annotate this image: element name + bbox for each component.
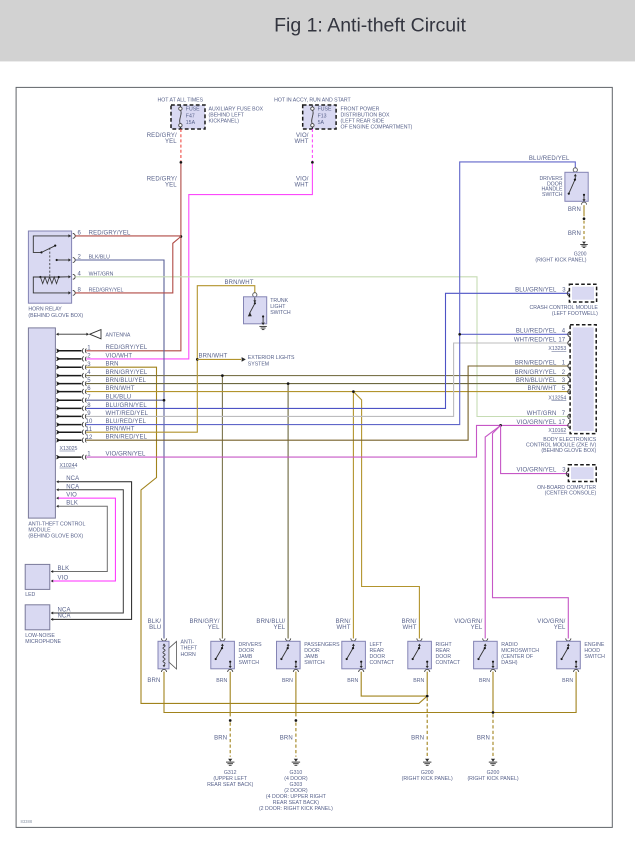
svg-text:EXTERIOR LIGHTS: EXTERIOR LIGHTS (248, 355, 295, 361)
wire BRN/WHT to exterior lights system arrow (197, 358, 241, 360)
svg-text:MICROSWITCH: MICROSWITCH (501, 648, 539, 654)
trunk light switch internals (254, 297, 256, 301)
svg-text:FUSE: FUSE (318, 107, 332, 113)
ground G200 radio (491, 759, 495, 762)
branch BRN/GRY/YEL to drivers door jamb switch (221, 376, 223, 639)
radio microswitch internals (484, 645, 486, 648)
horn relay coil to pin 8 (33, 277, 69, 293)
wire BRN/BLU/YEL pin 5 to body electronics pin 3 (86, 383, 569, 385)
svg-text:VIO/WHT: VIO/WHT (106, 353, 133, 359)
svg-text:BRN/BLU/: BRN/BLU/ (256, 619, 285, 625)
svg-text:BLU/RED/YEL: BLU/RED/YEL (516, 329, 557, 335)
anti-theft control module box (28, 328, 55, 518)
svg-text:BRN/RED/YEL: BRN/RED/YEL (515, 360, 557, 366)
body electronics module pin 3 BRN/BLU/YEL (568, 381, 571, 386)
svg-text:REAR SEAT BACK): REAR SEAT BACK) (207, 782, 253, 788)
svg-text:MODULE: MODULE (28, 528, 51, 534)
svg-text:VIO/GRN/YEL: VIO/GRN/YEL (517, 420, 558, 426)
svg-text:(BEHIND GLOVE BOX): (BEHIND GLOVE BOX) (541, 448, 596, 454)
crash control module box (569, 284, 596, 302)
svg-text:DASH): DASH) (501, 660, 517, 666)
svg-text:BRN: BRN (214, 736, 227, 742)
wire BRN pin 3 to bottom ground bus (86, 367, 427, 703)
svg-text:BLK: BLK (58, 566, 70, 572)
svg-text:BRN/BLU/YEL: BRN/BLU/YEL (516, 378, 557, 384)
svg-text:BRN/: BRN/ (402, 619, 417, 625)
ground G200 handle switch (582, 242, 586, 245)
svg-text:(RIGHT KICK PANEL): (RIGHT KICK PANEL) (467, 776, 518, 782)
branch VIO/GRN/YEL to on-board computer (501, 425, 569, 473)
svg-text:SWITCH: SWITCH (304, 660, 325, 666)
anti-theft module pin 1 stub (56, 349, 59, 353)
svg-text:2: 2 (87, 354, 91, 360)
ground G312 (228, 759, 232, 762)
svg-text:WHT: WHT (294, 139, 308, 145)
svg-text:VIO/: VIO/ (296, 176, 309, 182)
anti-theft module pin 3 stub (56, 365, 59, 369)
anti-theft module NCA pin 2 (51, 490, 123, 613)
svg-text:CONTACT: CONTACT (370, 660, 396, 666)
svg-text:CRASH CONTROL MODULE: CRASH CONTROL MODULE (529, 305, 598, 311)
splice dot on RED/GRY/YEL (180, 161, 183, 164)
svg-text:HOT AT ALL TIMES: HOT AT ALL TIMES (158, 98, 204, 104)
svg-text:3: 3 (562, 468, 566, 474)
wire WHT/GRN relay pin 4 to body electronics pin 7 (75, 277, 569, 417)
svg-text:F13: F13 (318, 113, 327, 119)
right rear door contact box (417, 638, 422, 641)
body electronics module pin 7 WHT/GRN (568, 414, 571, 419)
anti-theft module NCA pin 1 (51, 482, 132, 620)
svg-text:3: 3 (562, 287, 566, 293)
fuse F13 front power distribution box (303, 105, 336, 129)
svg-text:ANTENNA: ANTENNA (106, 332, 131, 338)
wire BLU/GRN/YEL pin 8 to crash control module (86, 293, 569, 408)
svg-text:MICROPHONE: MICROPHONE (25, 639, 61, 645)
horn relay box (28, 231, 71, 303)
body electronics control module box (570, 325, 596, 434)
svg-text:(RIGHT KICK PANEL): (RIGHT KICK PANEL) (535, 258, 586, 264)
svg-text:17: 17 (558, 420, 565, 426)
svg-text:SWITCH: SWITCH (239, 660, 260, 666)
wire BLK/BLU pin 7 (86, 399, 164, 401)
svg-text:HOOD: HOOD (584, 648, 600, 654)
trunk light switch ground (261, 323, 264, 326)
crash control module connector cup (567, 291, 570, 296)
anti-theft horn coil (163, 643, 166, 645)
svg-text:(LEFT REAR SIDE: (LEFT REAR SIDE (341, 119, 385, 125)
anti-theft horn box (161, 638, 166, 641)
svg-text:SYSTEM: SYSTEM (248, 361, 269, 367)
svg-text:KICKPANEL): KICKPANEL) (209, 119, 240, 125)
anti-theft module pin 9 stub (56, 415, 59, 419)
body electronics module pin 2 BRN/GRY/YEL (568, 373, 571, 378)
drivers door jamb switch internals (221, 645, 223, 648)
svg-text:SWITCH: SWITCH (584, 654, 605, 660)
radio microswitch box (483, 638, 488, 641)
body electronics module pin 17 WHT/RED/YEL (568, 340, 571, 345)
svg-text:WHT/RED/YEL: WHT/RED/YEL (514, 337, 557, 343)
svg-text:(LEFT FOOTWELL): (LEFT FOOTWELL) (552, 311, 598, 317)
svg-text:FRONT POWER: FRONT POWER (341, 106, 380, 112)
svg-text:BRN: BRN (280, 736, 293, 742)
horn relay connector cups (73, 234, 75, 239)
svg-text:HORN RELAY: HORN RELAY (28, 307, 62, 313)
svg-text:NCA: NCA (58, 614, 71, 620)
svg-text:(2 DOOR: RIGHT KICK PANEL): (2 DOOR: RIGHT KICK PANEL) (259, 806, 333, 812)
body electronics module pin 5 BRN/WHT (568, 389, 571, 394)
svg-text:DOOR: DOOR (370, 654, 386, 660)
svg-text:BRN: BRN (216, 678, 227, 684)
svg-text:NCA: NCA (58, 607, 71, 613)
branch BRN/WHT to left rear door contact (352, 392, 354, 639)
splice dot on VIO/WHT (311, 161, 314, 164)
svg-text:7: 7 (562, 411, 566, 417)
svg-text:BRN: BRN (413, 678, 424, 684)
wire RED/GRY/YEL solid to anti-theft module pin 1 (86, 164, 181, 351)
left rear door contact internals (352, 645, 354, 648)
junction dot RED/GRY/YEL with horn relay feeds (180, 235, 183, 238)
svg-text:VIO: VIO (58, 575, 69, 581)
svg-text:CONTACT: CONTACT (436, 660, 462, 666)
engine hood switch box (566, 638, 571, 641)
svg-text:BRN: BRN (347, 678, 358, 684)
wire BRN horn to ground bus (164, 672, 576, 713)
svg-text:BRN: BRN (568, 231, 581, 237)
ground G200 right rear (425, 759, 429, 762)
body electronics module pin 1 BRN/RED/YEL (568, 363, 571, 368)
svg-text:DISTRIBUTION BOX: DISTRIBUTION BOX (341, 113, 391, 119)
svg-text:BRN/WHT: BRN/WHT (225, 280, 254, 286)
body electronics module pin 4 BLU/RED/YEL (568, 332, 571, 337)
svg-text:SWITCH: SWITCH (542, 192, 563, 198)
trunk light switch box (244, 297, 267, 324)
svg-text:YEL: YEL (554, 625, 566, 631)
svg-text:BLU/RED/YEL: BLU/RED/YEL (529, 156, 570, 162)
svg-text:REAR: REAR (436, 648, 451, 654)
anti-theft module pin 12 stub (56, 438, 59, 442)
branch VIO/GRN/YEL to radio microswitch (485, 425, 500, 638)
LED box (25, 564, 50, 589)
svg-text:RED/GRY/: RED/GRY/ (147, 176, 177, 182)
svg-text:BRN: BRN (562, 678, 573, 684)
svg-text:BRN/: BRN/ (336, 619, 351, 625)
anti-theft module VIO pin to LED (51, 498, 115, 581)
svg-text:RIGHT: RIGHT (436, 642, 453, 648)
horn relay pin 2 contact (56, 259, 58, 261)
drivers door jamb switch box (220, 638, 225, 641)
svg-text:WHT/GRN: WHT/GRN (527, 411, 557, 417)
svg-text:FUSE: FUSE (186, 107, 200, 113)
svg-text:DOOR: DOOR (239, 648, 255, 654)
wire VIO/WHT solid to anti-theft module pin 2 (86, 164, 312, 359)
svg-text:YEL: YEL (274, 625, 286, 631)
horn relay actuator dashed link (49, 248, 51, 276)
ground G310 G303 (294, 759, 298, 762)
svg-text:BLU/GRN/YEL: BLU/GRN/YEL (515, 287, 557, 293)
svg-text:BLU: BLU (149, 625, 161, 631)
title banner (0, 0, 635, 61)
svg-text:(BEHIND GLOVE BOX): (BEHIND GLOVE BOX) (28, 313, 83, 319)
anti-theft module pin 11 stub (56, 430, 59, 434)
svg-text:DOOR: DOOR (304, 648, 320, 654)
engine hood switch internals (567, 645, 569, 648)
svg-text:BRN: BRN (568, 207, 581, 213)
on-board computer box (568, 465, 596, 482)
svg-text:BRN: BRN (479, 678, 490, 684)
svg-text:LED: LED (25, 592, 35, 598)
passengers door jamb switch internals (287, 645, 289, 648)
svg-text:BRN: BRN (282, 678, 293, 684)
passengers door jamb switch box (286, 638, 291, 641)
svg-text:15A: 15A (186, 120, 196, 126)
wire BRN drivers jamb to ground G312 (229, 672, 231, 717)
wire BRN below handle switch (583, 205, 585, 216)
anti-theft module BLK pin to LED (51, 506, 107, 571)
svg-text:NCA: NCA (66, 476, 79, 482)
wire BRN/WHT pin 11 to trunk light switch (86, 286, 255, 433)
right rear door contact internals (418, 645, 420, 648)
svg-text:VIO: VIO (66, 493, 77, 499)
antenna (58, 333, 88, 335)
svg-text:BRN/GRY/: BRN/GRY/ (189, 619, 219, 625)
wire RED/GRY/YEL dashed from fuse F47 (180, 129, 182, 161)
wire BLU/RED/YEL pin 10 to drivers door handle switch (86, 162, 575, 425)
svg-text:(RIGHT KICK PANEL): (RIGHT KICK PANEL) (402, 776, 453, 782)
svg-text:DRIVERS: DRIVERS (239, 642, 263, 648)
wire BLK/BLU relay pin 2 to anti-theft horn (75, 260, 164, 639)
svg-text:(BEHIND GLOVE BOX): (BEHIND GLOVE BOX) (28, 534, 83, 540)
svg-text:17: 17 (558, 337, 565, 343)
svg-text:1: 1 (87, 345, 91, 351)
svg-text:THEFT: THEFT (181, 646, 199, 652)
anti-theft module pin 7 stub (56, 398, 59, 402)
svg-text:YEL: YEL (165, 139, 177, 145)
svg-text:REAR: REAR (370, 648, 385, 654)
svg-text:OF ENGINE COMPARTMENT): OF ENGINE COMPARTMENT) (341, 125, 413, 131)
anti-theft module pin 5 stub (56, 382, 59, 386)
wire BRN radio microswitch to ground G200 (492, 672, 494, 713)
svg-text:BLK/: BLK/ (148, 619, 162, 625)
svg-text:1: 1 (562, 360, 566, 366)
fuse F13 element (311, 106, 313, 107)
svg-text:VIO/GRN/YEL: VIO/GRN/YEL (517, 468, 558, 474)
svg-text:SWITCH: SWITCH (270, 310, 291, 316)
svg-text:(BEHIND LEFT: (BEHIND LEFT (209, 113, 245, 119)
branch BRN/BLU/YEL to passengers door jamb switch (287, 384, 289, 639)
svg-text:BRN: BRN (147, 678, 160, 684)
horn relay internal switch (33, 236, 71, 253)
on-board computer connector cup (566, 471, 569, 476)
wire BRN right rear door contact to ground G200 (426, 672, 428, 695)
wire BRN/GRY/YEL pin 4 to body electronics pin 2 (86, 375, 569, 377)
svg-text:VIO/: VIO/ (296, 133, 309, 139)
svg-text:5: 5 (562, 386, 566, 392)
svg-text:BRN: BRN (411, 736, 424, 742)
anti-theft module pin 10 stub (56, 423, 59, 427)
wire WHT/RED/YEL pin 9 to body electronics pin 17 (86, 343, 569, 416)
svg-text:ANTI-: ANTI- (181, 640, 195, 646)
anti-theft module pin 6 stub (56, 390, 59, 394)
svg-text:VIO/GRN/: VIO/GRN/ (537, 619, 565, 625)
left rear door contact box (351, 638, 356, 641)
svg-text:WHT: WHT (294, 183, 308, 189)
branch VIO/GRN/YEL to engine hood switch (493, 425, 569, 638)
svg-text:WHT: WHT (402, 625, 416, 631)
svg-text:VIO/GRN/: VIO/GRN/ (454, 619, 482, 625)
svg-text:NCA: NCA (66, 484, 79, 490)
svg-text:(CENTER OF: (CENTER OF (501, 654, 533, 660)
wire BRN/WHT pin 6 to body electronics pin 5 (86, 391, 569, 393)
drivers door handle switch box (565, 172, 588, 201)
svg-text:LEFT: LEFT (370, 642, 384, 648)
svg-text:DOOR: DOOR (436, 654, 452, 660)
svg-text:4: 4 (562, 329, 566, 335)
svg-text:F47: F47 (186, 113, 195, 119)
svg-text:YEL: YEL (208, 625, 220, 631)
svg-text:83388: 83388 (21, 819, 33, 824)
svg-text:LOW-NOISE: LOW-NOISE (25, 633, 55, 639)
anti-theft module pin 8 stub (56, 407, 59, 411)
low-noise microphone box (25, 605, 50, 630)
svg-text:BRN/GRY/YEL: BRN/GRY/YEL (515, 370, 557, 376)
svg-text:BLK: BLK (66, 501, 78, 507)
branch BLU/RED/YEL to body electronics pin 4 (460, 333, 569, 335)
anti-theft module pin 2 stub (56, 357, 59, 361)
wire BRN left rear door contact (361, 672, 427, 697)
branch BRN/WHT to right rear door contact (353, 392, 419, 639)
fuse F47 auxiliary fuse box (171, 105, 205, 129)
wire VIO/WHT dashed from fuse F13 (311, 129, 313, 161)
svg-text:HORN: HORN (181, 652, 197, 658)
svg-text:5A: 5A (318, 120, 325, 126)
anti-theft module X10244 pin 1 stub (56, 455, 59, 459)
svg-text:YEL: YEL (165, 183, 177, 189)
fuse F47 element (179, 106, 181, 107)
svg-text:ENGINE: ENGINE (584, 642, 604, 648)
svg-text:G200: G200 (574, 251, 587, 257)
trunk light switch connector ring (253, 293, 257, 297)
svg-text:ANTI-THEFT CONTROL: ANTI-THEFT CONTROL (28, 522, 85, 528)
anti-theft module pin 4 stub (56, 374, 59, 378)
svg-text:HOT IN ACCY, RUN AND START: HOT IN ACCY, RUN AND START (274, 98, 351, 104)
svg-text:JAMB: JAMB (304, 654, 318, 660)
svg-text:RADIO: RADIO (501, 642, 517, 648)
svg-text:2: 2 (562, 370, 566, 376)
wire BRN/RED/YEL pin 12 to body electronics pin 1 (86, 366, 569, 440)
svg-text:AUXILIARY FUSE BOX: AUXILIARY FUSE BOX (209, 106, 264, 112)
svg-text:WHT: WHT (336, 625, 350, 631)
svg-text:BRN/WHT: BRN/WHT (527, 386, 556, 392)
horn relay coil (39, 276, 41, 278)
wire RED/GRY/YEL relay pin 6 (75, 235, 181, 237)
svg-text:PASSENGERS: PASSENGERS (304, 642, 340, 648)
wire VIO/GRN/YEL X10244 pin 1 to body electronics pin 17 (86, 425, 569, 457)
svg-text:JAMB: JAMB (239, 654, 253, 660)
svg-text:3: 3 (562, 378, 566, 384)
wire BRN passengers jamb to ground G310 (295, 672, 297, 717)
wire RED/GRY/YEL relay pin 8 (75, 237, 181, 293)
body electronics module pin 17 VIO/GRN/YEL (568, 423, 571, 428)
svg-text:BRN: BRN (477, 736, 490, 742)
svg-text:YEL: YEL (471, 625, 483, 631)
drivers door handle switch internals (574, 175, 576, 181)
svg-text:BRN/WHT: BRN/WHT (198, 354, 227, 360)
svg-text:LIGHT: LIGHT (270, 304, 286, 310)
svg-text:RED/GRY/YEL: RED/GRY/YEL (106, 345, 148, 351)
svg-text:(CENTER CONSOLE): (CENTER CONSOLE) (545, 491, 597, 497)
drivers door handle switch connector ring (573, 168, 577, 172)
svg-text:RED/GRY/: RED/GRY/ (147, 133, 177, 139)
svg-text:Fig 1: Anti-theft Circuit: Fig 1: Anti-theft Circuit (274, 15, 466, 37)
svg-text:TRUNK: TRUNK (270, 298, 288, 304)
